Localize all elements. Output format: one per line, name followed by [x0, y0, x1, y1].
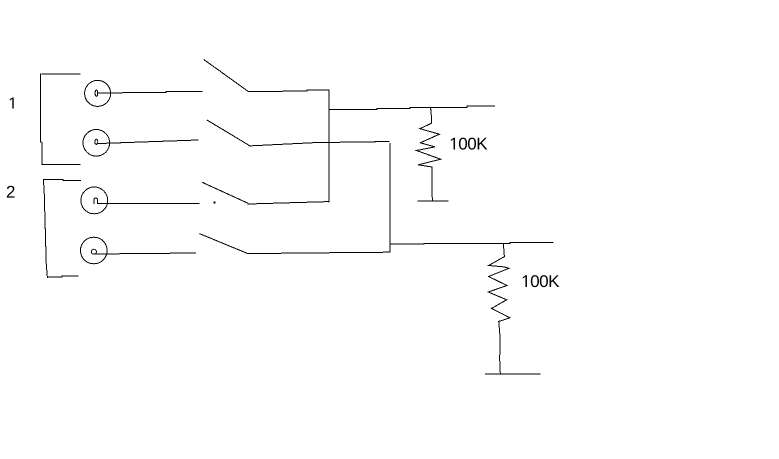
ground GND1 — [418, 200, 448, 202]
jack J1 circle — [85, 80, 111, 106]
wire output 2 — [390, 242, 553, 244]
bracket input group 2 — [43, 179, 80, 182]
resistor R1 stub — [430, 107, 433, 123]
label R1 value 100K — [451, 138, 488, 150]
wire J3 to switch S3 — [97, 202, 199, 204]
label R2 value 100K — [523, 275, 560, 287]
resistor R1 tail — [431, 167, 433, 201]
jack J4 circle — [81, 237, 108, 264]
resistor R2 tail — [499, 321, 501, 373]
resistor R2 stub — [503, 243, 506, 256]
jack J3 tip — [94, 198, 97, 204]
wire J1 to switch S1 — [98, 92, 202, 93]
bus 1 vertical — [328, 90, 330, 202]
jack J2 tip — [95, 139, 98, 144]
switch S3 throw wire to bus 1 — [248, 202, 329, 204]
ground GND2 — [486, 373, 540, 375]
jack J3 circle — [81, 187, 108, 214]
jack J4 tip — [91, 249, 96, 254]
switch S1 arm — [204, 60, 248, 92]
switch S4 arm — [200, 234, 248, 254]
bracket input group 1 — [42, 73, 80, 75]
bus 2 vertical — [389, 144, 391, 253]
resistor R1 zigzag — [417, 123, 441, 167]
switch S1 throw wire to bus 1 — [248, 90, 329, 92]
switch S4 throw wire to bus 2 — [248, 252, 390, 253]
jack J2 circle — [83, 130, 110, 157]
switch S2 throw wire to bus 2 — [250, 141, 389, 146]
stray dot — [213, 201, 215, 203]
switch S3 arm — [202, 182, 248, 203]
label input 2 — [7, 186, 15, 198]
wire output 1 — [329, 106, 495, 109]
wire J2 to switch S2 — [97, 140, 198, 144]
wire J4 to switch S4 — [95, 253, 196, 254]
resistor R2 zigzag — [488, 257, 510, 322]
label input 1 — [10, 97, 14, 108]
jack J1 tip — [95, 90, 98, 96]
switch S2 arm — [207, 120, 250, 146]
